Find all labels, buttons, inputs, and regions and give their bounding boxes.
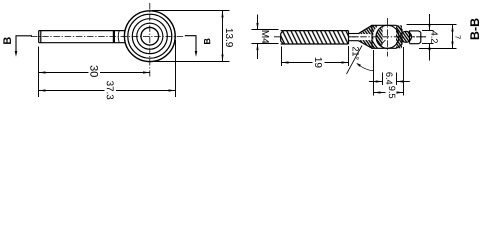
ball, sectioned — [376, 25, 399, 48]
neck clearance slot — [359, 34, 373, 40]
neck behind thread — [349, 34, 359, 41]
dimension M4 (thread) — [252, 15, 279, 60]
thread runout line — [113, 31, 115, 43]
stud — [410, 31, 421, 44]
dimension 19 (thread length) — [282, 46, 349, 66]
bore chamfer circle — [137, 23, 163, 49]
threaded shank outline — [39, 31, 125, 43]
cone angle reference line in ball — [381, 40, 386, 45]
section marker B right — [185, 36, 210, 57]
ball outline — [376, 25, 399, 48]
extension line left (shank end) — [38, 47, 40, 98]
dimension 13.9 (head diameter) — [152, 11, 230, 62]
section label B-B — [470, 18, 479, 39]
socket body, sectioned — [372, 25, 402, 48]
collar between socket and stud — [400, 29, 411, 44]
socket outline — [359, 25, 403, 48]
section centerline — [274, 36, 427, 38]
dimension 6.4 — [369, 73, 410, 86]
centerline through section, overlay — [349, 36, 427, 38]
horizontal centerline of rod — [31, 36, 184, 38]
ball vertical centerline — [387, 18, 389, 57]
shank-head fillet — [118, 31, 119, 43]
dimension 37.3 (overall length) — [39, 90, 176, 92]
extension line right (head edge) — [175, 40, 177, 97]
bearing ball circle — [132, 19, 167, 54]
head chamfer circle — [128, 14, 172, 58]
vertical centerline of head — [149, 3, 151, 77]
bore circle — [141, 27, 159, 45]
section marker B left — [3, 36, 32, 57]
dimension 30 (thread length to head centre) — [39, 72, 150, 74]
threaded shank, sectioned — [281, 31, 349, 44]
ball bore, white — [383, 26, 396, 49]
socket flare, sectioned — [359, 25, 373, 48]
head outer circle — [124, 11, 175, 62]
cavity gap around ball — [374, 24, 387, 50]
angle dimension 21 deg — [347, 46, 374, 75]
dimension 4.2 (stud diameter) — [422, 14, 434, 61]
dimension 9.5 — [374, 47, 404, 96]
dimension 7 (ball diameter) — [407, 25, 457, 49]
